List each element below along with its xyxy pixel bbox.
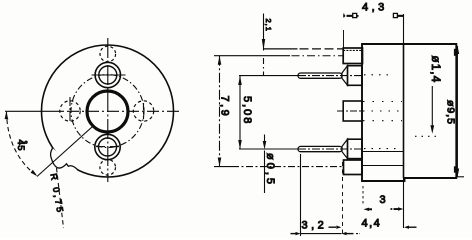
dim 3 left arrow xyxy=(364,208,370,211)
center hole (thick circle) xyxy=(87,91,128,132)
middle tab centerline xyxy=(337,110,362,112)
svg-text:R 0,75: R 0,75 xyxy=(49,173,66,216)
bottom pin xyxy=(298,146,342,151)
dim 4,4 left arrow (outside) xyxy=(329,226,337,228)
svg-text:2,1: 2,1 xyxy=(264,19,273,32)
dim 5,08 line xyxy=(239,76,241,149)
top pin centerline through pin xyxy=(298,75,361,77)
notch R0,75 xyxy=(50,148,78,170)
dim 7,9 arrow top xyxy=(218,56,222,65)
svg-text:7,9: 7,9 xyxy=(219,96,231,119)
outer circle body xyxy=(42,45,174,177)
dim 4,3 extension left xyxy=(343,30,345,48)
bottom pin collar xyxy=(348,139,363,158)
dim 3 / 4,4 extension line x403.5 bottom xyxy=(403,178,405,228)
45 deg radial line xyxy=(37,127,92,177)
dim diam 9,5 bottom extension xyxy=(457,176,465,178)
svg-text:ø1,4: ø1,4 xyxy=(429,56,441,84)
top pin collar xyxy=(348,66,363,86)
dim 2,1 line xyxy=(263,14,265,51)
top pin xyxy=(298,73,342,78)
bottom pin centerline dots in body xyxy=(364,148,400,150)
lug top edge extension line xyxy=(264,48,298,50)
dim 4,4 right arrow (outside) xyxy=(404,226,409,229)
horizontal centerline solid left part xyxy=(5,110,64,112)
top pin cone xyxy=(342,66,348,86)
dim diam 9,5 arrow bottom xyxy=(456,169,460,178)
dim 3,2 right arrow xyxy=(342,232,347,235)
svg-text:4,4: 4,4 xyxy=(362,218,382,230)
dim 4,3 right marks xyxy=(393,13,397,17)
dashed circle left vertical centerline xyxy=(69,97,71,122)
bolt circle (dash-dot) xyxy=(71,75,144,148)
notch mask at 225 deg xyxy=(47,148,78,180)
bottom solder lug xyxy=(344,160,363,175)
svg-text:°: ° xyxy=(24,140,28,150)
dim 3,2 left arrow xyxy=(291,233,297,235)
dim diam 9,5 line xyxy=(456,46,458,177)
dashed circle right vertical centerline xyxy=(143,103,145,119)
dim 3,2 line xyxy=(301,233,342,235)
right edge spring nub bottom xyxy=(454,166,457,172)
dim 7,9 line xyxy=(219,56,221,167)
dim 3 extension dots xyxy=(362,186,364,205)
middle flat tab xyxy=(343,101,362,121)
svg-text:5,08: 5,08 xyxy=(241,96,253,125)
dashed circle bottom xyxy=(100,160,116,176)
body slot hidden line bottom xyxy=(362,165,404,167)
vertical centerline xyxy=(107,38,109,182)
pin top circle outer xyxy=(95,62,120,87)
R 0,75 leader dashed line xyxy=(57,168,64,228)
45 deg dimension arc (dashed) xyxy=(7,112,38,176)
top lug centerline xyxy=(214,55,290,57)
pin top circle inner xyxy=(99,66,117,84)
dim 4,3 left marks xyxy=(343,15,345,17)
pin bottom circle inner xyxy=(99,138,117,156)
dim 3,2 extension left xyxy=(300,154,302,236)
dim diam 0,5 upper tail xyxy=(264,135,266,144)
bottom pin centerline through pin xyxy=(298,148,361,150)
dim 5,08 extension line bottom xyxy=(239,148,298,150)
pin top crosshair xyxy=(92,74,126,76)
dim diam 1,4 arrow xyxy=(431,86,433,127)
dim 7,9 arrow bottom xyxy=(218,158,222,167)
middle tab hidden dots in body xyxy=(363,110,402,112)
svg-text:4,3: 4,3 xyxy=(362,2,388,14)
dim 4,3 extension line to x403.5 top xyxy=(403,14,405,44)
dim diam 9,5 arrow top xyxy=(456,45,460,54)
top lug inner top edge xyxy=(343,49,362,51)
dim 3,2 extension right xyxy=(342,162,344,236)
45 arc arrowhead bottom xyxy=(31,170,38,176)
dim diam 0,5 arrow (down to pin line) xyxy=(263,141,267,150)
svg-text:ø9,5: ø9,5 xyxy=(445,100,457,125)
svg-text:ø0,5: ø0,5 xyxy=(264,153,276,187)
pin bottom circle outer xyxy=(95,134,120,159)
dim 5,08 arrow top xyxy=(238,76,242,85)
dim 5,08 extension line top xyxy=(239,75,298,77)
dashed circle right xyxy=(133,101,153,121)
body flange step edge xyxy=(403,44,405,178)
top solder lug xyxy=(343,48,362,64)
dashed circle left xyxy=(60,101,80,121)
dashed circle top xyxy=(100,46,116,62)
45 arc arrowhead top xyxy=(5,112,9,120)
body outline xyxy=(362,44,456,181)
svg-text:3,2: 3,2 xyxy=(302,220,328,232)
right edge spring nub top xyxy=(454,49,457,56)
body slot hidden line top xyxy=(362,151,404,153)
dim diam 0,5 line below xyxy=(264,151,266,194)
top pin centerline dots in body xyxy=(364,74,388,76)
dim 5,08 arrow bottom xyxy=(238,140,242,149)
pin bottom crosshair xyxy=(96,146,105,148)
svg-text:3: 3 xyxy=(380,194,386,206)
horizontal centerline dash-dot right part xyxy=(67,110,180,112)
axis dots near arrow xyxy=(415,135,436,137)
bottom pin cone xyxy=(342,139,348,158)
dim 3 right arrow xyxy=(391,208,393,210)
dim 2,1 lower extension dash-dot xyxy=(263,58,265,75)
bottom lug centerline xyxy=(214,166,232,168)
dim 2,1 arrowhead xyxy=(262,39,265,50)
